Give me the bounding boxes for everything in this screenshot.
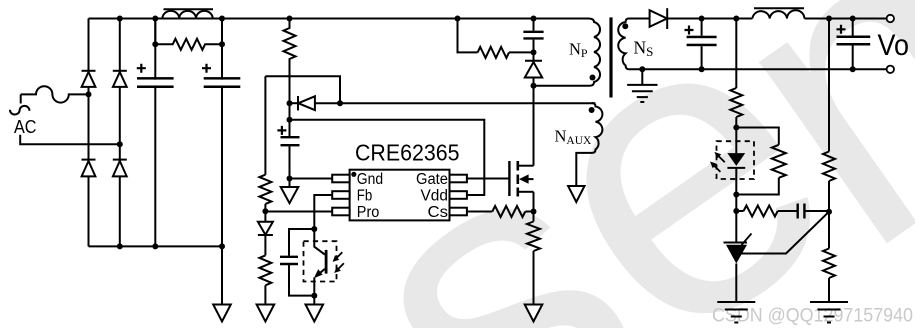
ground GND3 (Vdd/Gnd) — [289, 179, 291, 188]
diode D5 (Vdd rectifier from aux) — [297, 96, 299, 110]
resistor R2 (snubber) — [458, 19, 478, 53]
capacitor C1 (bulk electrolytic) — [137, 77, 174, 80]
transformer auxiliary Naux — [592, 103, 603, 153]
AC source terminal 2 / wire to bridge — [20, 135, 120, 144]
fuse F1 — [21, 86, 89, 102]
svg-text:Cs: Cs — [428, 204, 449, 221]
wire Gate pin to MOSFET — [467, 178, 510, 180]
wire secondary top — [629, 18, 650, 20]
resistor R8 (LED series upper) — [735, 19, 737, 89]
svg-text:Fb: Fb — [357, 188, 373, 205]
diode D4 (bridge lower) — [113, 159, 127, 161]
resistor R9 (LED parallel) — [736, 128, 779, 145]
diode D2 (bridge upper) — [113, 70, 127, 72]
diode D7 (snubber) — [533, 52, 535, 60]
svg-text:Pro: Pro — [357, 204, 380, 221]
ground GND1 (bulk negative) — [213, 305, 231, 322]
transformer T1 primary Np — [588, 19, 600, 86]
resistor R10 (comp series) — [736, 210, 743, 212]
earth ground E3 (divider) — [810, 301, 848, 303]
transistor Q (opto) body — [325, 250, 328, 274]
wire bulk cap column 1 — [154, 19, 156, 247]
AC source terminal 1 — [20, 94, 22, 103]
wire upper-left loop to aux diode — [265, 76, 340, 103]
diode D8 (output rectifier) — [650, 10, 667, 27]
capacitor C8 (comp) — [778, 210, 797, 212]
wire Naux return — [576, 153, 592, 186]
opto light arrows (into transistor) — [336, 252, 342, 258]
TL431 U3 — [724, 242, 748, 244]
wire LED cathode to TL431 — [735, 195, 737, 243]
resistor R4 (left rail) — [259, 175, 271, 204]
capacitor C6 (Fb filter) — [289, 229, 314, 256]
terminal Vo+ — [887, 15, 894, 22]
transformer core — [609, 17, 612, 97]
LED (opto diode) — [735, 128, 737, 154]
svg-text:Vo: Vo — [878, 29, 910, 62]
earth ground E1 (secondary) — [641, 69, 643, 85]
wire Vdd feed to pin — [290, 120, 485, 195]
wire ground stem bottom-left — [221, 246, 223, 304]
earth ground E2 (TL431) — [717, 301, 755, 303]
resistor R12 (divider lower) — [828, 212, 830, 249]
phase dot Np — [590, 75, 596, 81]
diode D6 (Pro clamp) — [264, 211, 266, 222]
resistor R5 (below clamp) — [264, 235, 266, 255]
optocoupler U2 phototransistor (dashed box) — [304, 241, 337, 281]
transformer secondary Ns — [618, 19, 629, 70]
wire secondary bottom rail — [629, 68, 887, 70]
wire bottom rail — [89, 245, 223, 247]
svg-text:CRE62365: CRE62365 — [355, 140, 460, 166]
phase dot Naux — [589, 107, 595, 113]
svg-text:Vdd: Vdd — [421, 188, 449, 205]
TL431 reference connection — [740, 212, 829, 254]
phase dot Ns — [622, 23, 628, 29]
ground GND2 (left rail) — [257, 305, 275, 322]
diode D3 (bridge lower) — [82, 159, 96, 161]
capacitor C5 (Vdd electrolytic) — [281, 136, 300, 138]
wire Gnd pin to ground — [290, 178, 333, 180]
wire bridge right column — [119, 19, 121, 247]
inductor L1 (input choke) — [162, 11, 212, 19]
svg-text:CSDN @QQ1297157940: CSDN @QQ1297157940 — [712, 305, 913, 326]
svg-text:Gnd: Gnd — [357, 171, 383, 188]
capacitor C3 (output electrolytic 1) — [701, 19, 703, 36]
ground GND4 (opto emitter) — [313, 296, 315, 305]
wire Np bottom — [534, 85, 591, 87]
wire bridge left column — [88, 19, 90, 247]
resistor R7 (current sense) — [533, 212, 535, 222]
wire Vdd column — [289, 103, 291, 137]
terminal Vo- — [887, 66, 894, 73]
ground GND5 (sense) — [525, 305, 543, 322]
capacitor C7 (snubber) — [533, 19, 535, 31]
capacitor C4 (output electrolytic 2) — [852, 19, 854, 36]
resistor R3 (startup, from HV rail) — [284, 19, 296, 104]
wire bulk cap column 2 — [221, 19, 223, 247]
inductor L2 (output filter) — [752, 10, 804, 18]
wire top rail — [89, 18, 589, 20]
ground GND6 (Naux) — [568, 186, 584, 202]
diode D1 (bridge upper) — [82, 70, 96, 72]
optocoupler U2 LED (dashed box) — [717, 141, 755, 179]
capacitor C2 (bulk electrolytic) — [204, 77, 241, 80]
wire Fb pin — [314, 195, 332, 229]
wire Pro pin — [265, 211, 332, 213]
op IC U1 CRE62365 — [350, 170, 450, 221]
resistor R11 (divider upper) — [828, 19, 830, 152]
wire aux supply line to Naux — [340, 102, 596, 104]
resistor R6 (Cs series) — [467, 211, 492, 213]
wire drain — [533, 86, 535, 166]
wire left mid rail — [264, 76, 266, 174]
svg-text:AC: AC — [14, 116, 37, 137]
svg-text:Gate: Gate — [416, 171, 448, 188]
transistor Q1 MOSFET — [508, 161, 510, 196]
wire source to Cs node — [533, 192, 535, 212]
resistor R1 (parallel damping) — [154, 19, 156, 45]
LED emission arrows — [719, 156, 725, 162]
